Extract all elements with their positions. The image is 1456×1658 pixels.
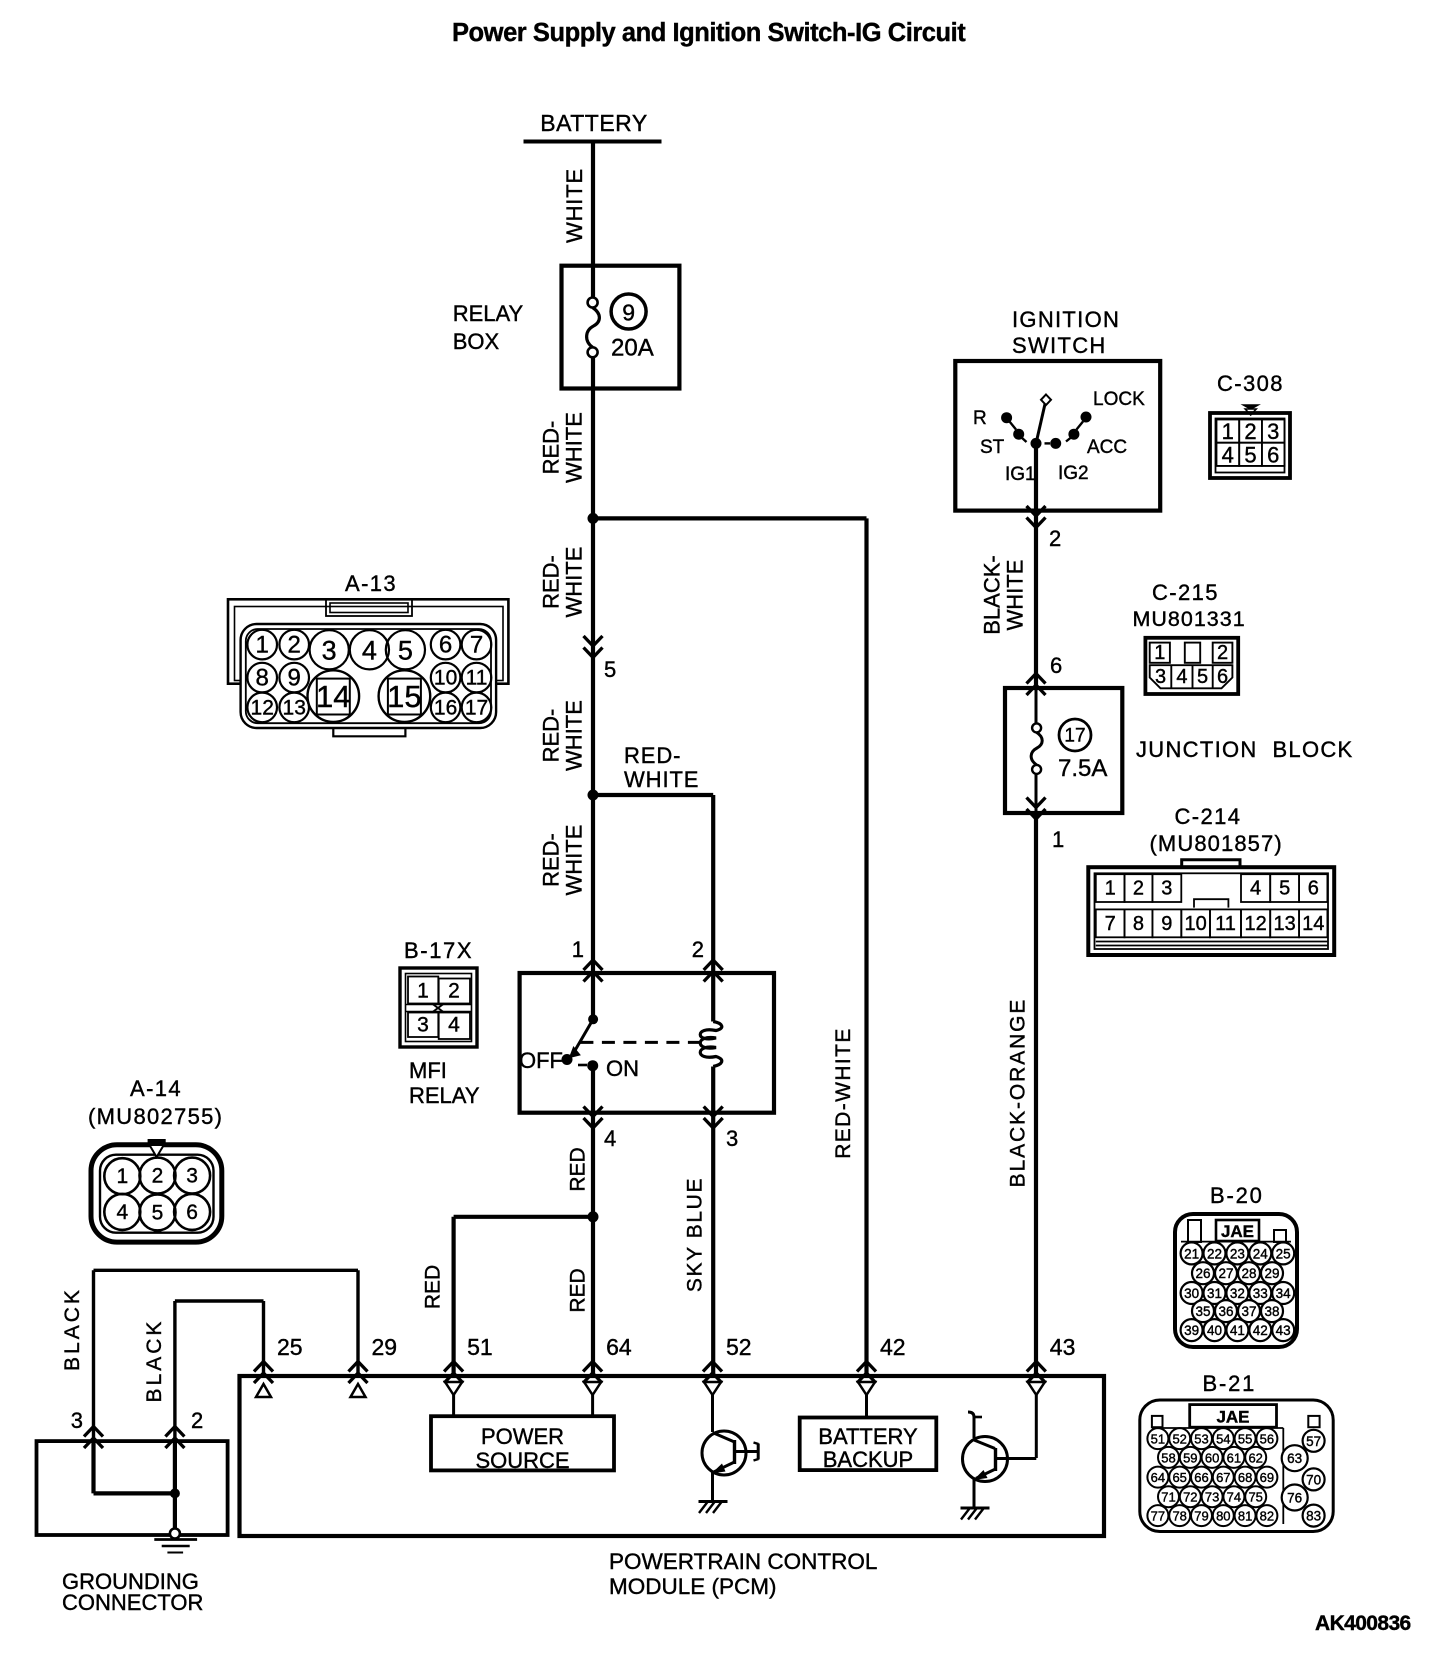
svg-text:CONNECTOR: CONNECTOR bbox=[62, 1590, 203, 1615]
svg-text:57: 57 bbox=[1306, 1434, 1321, 1449]
svg-text:1: 1 bbox=[1052, 827, 1064, 852]
svg-text:31: 31 bbox=[1207, 1286, 1222, 1301]
svg-text:BATTERY: BATTERY bbox=[818, 1424, 918, 1449]
svg-text:2: 2 bbox=[1217, 642, 1228, 664]
svg-text:3: 3 bbox=[186, 1165, 198, 1188]
svg-text:37: 37 bbox=[1241, 1304, 1256, 1319]
svg-text:MODULE (PCM): MODULE (PCM) bbox=[609, 1574, 777, 1599]
svg-text:40: 40 bbox=[1207, 1323, 1222, 1338]
svg-text:4: 4 bbox=[362, 635, 377, 665]
svg-text:21: 21 bbox=[1184, 1246, 1199, 1261]
svg-text:59: 59 bbox=[1183, 1450, 1197, 1465]
svg-text:RED-: RED- bbox=[539, 709, 564, 763]
svg-text:55: 55 bbox=[1238, 1432, 1252, 1447]
svg-text:63: 63 bbox=[1287, 1451, 1302, 1466]
svg-text:BLACK: BLACK bbox=[143, 1319, 166, 1403]
svg-text:BACKUP: BACKUP bbox=[823, 1447, 913, 1472]
svg-text:74: 74 bbox=[1227, 1490, 1241, 1505]
svg-text:2: 2 bbox=[1133, 878, 1144, 900]
svg-text:C-308: C-308 bbox=[1217, 371, 1284, 396]
svg-text:12: 12 bbox=[1244, 913, 1266, 935]
svg-text:33: 33 bbox=[1253, 1286, 1268, 1301]
svg-text:14: 14 bbox=[1302, 913, 1324, 935]
svg-text:70: 70 bbox=[1306, 1472, 1321, 1487]
svg-text:RED: RED bbox=[567, 1147, 590, 1191]
svg-text:B-20: B-20 bbox=[1210, 1183, 1264, 1208]
svg-text:52: 52 bbox=[1172, 1432, 1186, 1447]
svg-text:54: 54 bbox=[1216, 1432, 1230, 1447]
svg-text:RED-WHITE: RED-WHITE bbox=[832, 1027, 855, 1159]
svg-text:43: 43 bbox=[1050, 1334, 1076, 1360]
svg-text:32: 32 bbox=[1230, 1286, 1245, 1301]
svg-text:17: 17 bbox=[465, 696, 488, 719]
svg-text:JAE: JAE bbox=[1216, 1408, 1249, 1427]
svg-text:POWER: POWER bbox=[481, 1424, 564, 1449]
svg-text:A-14: A-14 bbox=[130, 1076, 182, 1101]
svg-text:JUNCTION BLOCK: JUNCTION BLOCK bbox=[1136, 737, 1354, 762]
svg-text:ST: ST bbox=[980, 437, 1005, 458]
svg-text:29: 29 bbox=[1264, 1266, 1279, 1281]
svg-text:4: 4 bbox=[448, 1014, 460, 1037]
svg-text:77: 77 bbox=[1151, 1509, 1165, 1524]
svg-text:28: 28 bbox=[1241, 1266, 1256, 1281]
svg-text:(MU801857): (MU801857) bbox=[1150, 831, 1283, 856]
svg-text:BLACK-: BLACK- bbox=[980, 555, 1005, 634]
svg-text:AK400836: AK400836 bbox=[1315, 1612, 1411, 1635]
svg-text:4: 4 bbox=[1222, 442, 1234, 467]
svg-text:3: 3 bbox=[1267, 419, 1279, 444]
svg-text:B-21: B-21 bbox=[1203, 1371, 1257, 1396]
svg-text:RED: RED bbox=[422, 1265, 445, 1309]
svg-text:1: 1 bbox=[417, 980, 429, 1003]
svg-text:62: 62 bbox=[1248, 1450, 1262, 1465]
svg-text:10: 10 bbox=[434, 667, 457, 690]
svg-text:78: 78 bbox=[1172, 1509, 1186, 1524]
svg-text:WHITE: WHITE bbox=[562, 700, 587, 771]
svg-text:56: 56 bbox=[1260, 1432, 1274, 1447]
svg-text:B-17X: B-17X bbox=[404, 938, 473, 963]
svg-text:5: 5 bbox=[152, 1201, 164, 1224]
svg-text:ON: ON bbox=[606, 1056, 639, 1081]
svg-text:2: 2 bbox=[1244, 419, 1256, 444]
svg-text:3: 3 bbox=[1161, 878, 1172, 900]
svg-text:58: 58 bbox=[1161, 1450, 1175, 1465]
svg-text:6: 6 bbox=[1308, 878, 1319, 900]
svg-text:7: 7 bbox=[1105, 913, 1116, 935]
svg-text:R: R bbox=[973, 408, 987, 429]
svg-text:9: 9 bbox=[1161, 913, 1172, 935]
svg-text:30: 30 bbox=[1184, 1286, 1199, 1301]
svg-text:1: 1 bbox=[1154, 642, 1165, 664]
svg-text:51: 51 bbox=[1151, 1432, 1165, 1447]
svg-text:WHITE: WHITE bbox=[562, 412, 587, 483]
svg-text:3: 3 bbox=[71, 1408, 83, 1433]
svg-text:WHITE: WHITE bbox=[562, 825, 587, 896]
svg-text:MU801331: MU801331 bbox=[1133, 607, 1246, 631]
svg-text:36: 36 bbox=[1218, 1304, 1233, 1319]
svg-text:POWERTRAIN CONTROL: POWERTRAIN CONTROL bbox=[609, 1549, 877, 1574]
svg-text:11: 11 bbox=[1215, 913, 1236, 935]
svg-text:6: 6 bbox=[1217, 666, 1228, 688]
svg-text:3: 3 bbox=[726, 1126, 738, 1151]
svg-text:61: 61 bbox=[1227, 1450, 1241, 1465]
svg-text:64: 64 bbox=[1151, 1470, 1165, 1485]
svg-text:79: 79 bbox=[1194, 1509, 1208, 1524]
svg-text:67: 67 bbox=[1216, 1470, 1230, 1485]
svg-text:2: 2 bbox=[288, 632, 301, 659]
svg-text:3: 3 bbox=[322, 635, 337, 665]
svg-text:25: 25 bbox=[1276, 1246, 1291, 1261]
svg-text:BOX: BOX bbox=[453, 329, 500, 354]
svg-text:6: 6 bbox=[186, 1201, 198, 1224]
svg-text:35: 35 bbox=[1195, 1304, 1210, 1319]
svg-text:2: 2 bbox=[692, 937, 704, 962]
svg-text:4: 4 bbox=[604, 1126, 616, 1151]
svg-text:72: 72 bbox=[1183, 1490, 1197, 1505]
svg-text:24: 24 bbox=[1253, 1246, 1269, 1261]
svg-text:1: 1 bbox=[572, 937, 584, 962]
svg-text:42: 42 bbox=[880, 1334, 906, 1360]
svg-text:17: 17 bbox=[1064, 726, 1085, 747]
svg-text:C-215: C-215 bbox=[1152, 580, 1219, 605]
svg-text:12: 12 bbox=[251, 696, 274, 719]
svg-text:26: 26 bbox=[1195, 1266, 1210, 1281]
svg-text:25: 25 bbox=[277, 1334, 303, 1360]
svg-text:65: 65 bbox=[1172, 1470, 1186, 1485]
svg-text:IG2: IG2 bbox=[1058, 463, 1089, 484]
svg-text:82: 82 bbox=[1260, 1509, 1274, 1524]
svg-text:10: 10 bbox=[1185, 913, 1207, 935]
svg-text:BLACK: BLACK bbox=[61, 1287, 84, 1371]
svg-text:IG1: IG1 bbox=[1005, 464, 1036, 485]
svg-text:13: 13 bbox=[1274, 913, 1296, 935]
svg-text:JAE: JAE bbox=[1221, 1222, 1254, 1241]
svg-text:8: 8 bbox=[256, 665, 269, 692]
svg-text:39: 39 bbox=[1184, 1323, 1199, 1338]
svg-text:69: 69 bbox=[1260, 1470, 1274, 1485]
svg-text:7.5A: 7.5A bbox=[1058, 755, 1107, 782]
svg-text:6: 6 bbox=[1267, 442, 1279, 467]
svg-text:LOCK: LOCK bbox=[1093, 389, 1145, 410]
svg-text:6: 6 bbox=[439, 632, 452, 659]
svg-text:RED-: RED- bbox=[539, 555, 564, 609]
svg-text:60: 60 bbox=[1205, 1450, 1219, 1465]
svg-text:41: 41 bbox=[1230, 1323, 1245, 1338]
svg-text:2: 2 bbox=[191, 1408, 203, 1433]
svg-text:5: 5 bbox=[604, 657, 616, 682]
svg-text:66: 66 bbox=[1194, 1470, 1208, 1485]
svg-text:3: 3 bbox=[1155, 666, 1166, 688]
svg-text:83: 83 bbox=[1306, 1509, 1321, 1524]
svg-text:OFF: OFF bbox=[519, 1048, 563, 1073]
svg-text:ACC: ACC bbox=[1087, 437, 1127, 458]
svg-text:SWITCH: SWITCH bbox=[1012, 333, 1107, 358]
svg-text:1: 1 bbox=[256, 632, 269, 659]
svg-text:RED-: RED- bbox=[539, 421, 564, 475]
svg-text:11: 11 bbox=[466, 667, 488, 690]
svg-text:20A: 20A bbox=[611, 335, 654, 362]
svg-text:22: 22 bbox=[1207, 1246, 1222, 1261]
svg-text:RELAY: RELAY bbox=[453, 301, 524, 326]
svg-text:5: 5 bbox=[1197, 666, 1208, 688]
svg-text:8: 8 bbox=[1133, 913, 1144, 935]
svg-text:RED-: RED- bbox=[539, 833, 564, 887]
svg-text:13: 13 bbox=[283, 696, 306, 719]
svg-text:2: 2 bbox=[1049, 526, 1061, 551]
svg-text:SKY BLUE: SKY BLUE bbox=[684, 1177, 707, 1292]
svg-text:27: 27 bbox=[1218, 1266, 1233, 1281]
svg-text:9: 9 bbox=[288, 665, 301, 692]
svg-text:SOURCE: SOURCE bbox=[475, 1448, 569, 1473]
svg-text:64: 64 bbox=[606, 1334, 632, 1360]
svg-text:WHITE: WHITE bbox=[562, 547, 587, 618]
svg-text:WHITE: WHITE bbox=[1003, 560, 1028, 631]
svg-text:15: 15 bbox=[387, 679, 421, 714]
svg-text:68: 68 bbox=[1238, 1470, 1252, 1485]
svg-text:A-13: A-13 bbox=[345, 571, 397, 596]
svg-text:BATTERY: BATTERY bbox=[540, 110, 647, 136]
svg-text:C-214: C-214 bbox=[1175, 804, 1242, 829]
svg-text:73: 73 bbox=[1205, 1490, 1219, 1505]
svg-text:3: 3 bbox=[417, 1014, 429, 1037]
svg-text:34: 34 bbox=[1276, 1286, 1292, 1301]
svg-text:75: 75 bbox=[1248, 1490, 1262, 1505]
svg-text:BLACK-ORANGE: BLACK-ORANGE bbox=[1007, 998, 1030, 1188]
svg-text:WHITE: WHITE bbox=[562, 168, 587, 243]
svg-text:53: 53 bbox=[1194, 1432, 1208, 1447]
svg-text:7: 7 bbox=[470, 632, 483, 659]
svg-text:80: 80 bbox=[1216, 1509, 1230, 1524]
svg-text:23: 23 bbox=[1230, 1246, 1245, 1261]
svg-text:MFI: MFI bbox=[409, 1058, 447, 1083]
svg-text:16: 16 bbox=[434, 696, 457, 719]
svg-text:4: 4 bbox=[1176, 666, 1187, 688]
svg-text:51: 51 bbox=[467, 1334, 493, 1360]
svg-text:Power Supply and Ignition Swit: Power Supply and Ignition Switch-IG Circ… bbox=[452, 19, 966, 47]
svg-text:1: 1 bbox=[116, 1165, 128, 1188]
svg-text:1: 1 bbox=[1222, 419, 1234, 444]
svg-text:1: 1 bbox=[1105, 878, 1116, 900]
svg-text:52: 52 bbox=[726, 1334, 752, 1360]
svg-text:4: 4 bbox=[1250, 878, 1261, 900]
svg-text:2: 2 bbox=[448, 980, 460, 1003]
svg-text:76: 76 bbox=[1287, 1491, 1302, 1506]
svg-text:14: 14 bbox=[316, 679, 350, 714]
svg-text:42: 42 bbox=[1253, 1323, 1268, 1338]
svg-text:4: 4 bbox=[116, 1201, 128, 1224]
svg-text:(MU802755): (MU802755) bbox=[88, 1104, 223, 1129]
svg-text:RELAY: RELAY bbox=[409, 1083, 480, 1108]
svg-text:WHITE: WHITE bbox=[624, 767, 699, 792]
svg-text:81: 81 bbox=[1238, 1509, 1252, 1524]
svg-text:5: 5 bbox=[398, 635, 413, 665]
svg-text:38: 38 bbox=[1264, 1304, 1279, 1319]
svg-text:9: 9 bbox=[622, 300, 635, 326]
svg-text:5: 5 bbox=[1279, 878, 1290, 900]
svg-text:71: 71 bbox=[1161, 1490, 1175, 1505]
svg-text:6: 6 bbox=[1050, 653, 1062, 678]
svg-text:29: 29 bbox=[372, 1334, 398, 1360]
svg-text:IGNITION: IGNITION bbox=[1012, 307, 1120, 332]
svg-text:5: 5 bbox=[1244, 442, 1256, 467]
svg-text:RED-: RED- bbox=[624, 743, 681, 768]
svg-text:RED: RED bbox=[567, 1268, 590, 1312]
svg-text:2: 2 bbox=[152, 1165, 164, 1188]
svg-text:43: 43 bbox=[1276, 1323, 1291, 1338]
